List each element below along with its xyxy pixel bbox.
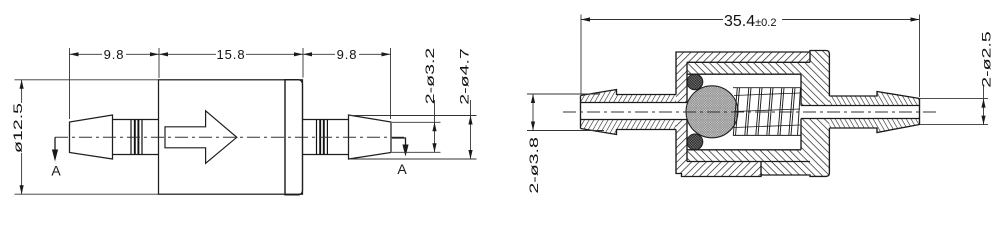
ball (poppet) bbox=[686, 86, 738, 138]
spring coils bbox=[733, 88, 800, 136]
hatched: housing top sleeve bbox=[687, 62, 810, 74]
section cut line A (left) bbox=[52, 137, 58, 161]
right tube outline bbox=[829, 92, 919, 133]
spring bbox=[733, 88, 801, 136]
right barb cone bbox=[349, 115, 392, 159]
spring top envelope bbox=[733, 87, 801, 89]
cap outline bbox=[676, 52, 810, 177]
cap skin right end bbox=[809, 52, 811, 62]
dimension 2-phi3.8 bbox=[527, 94, 604, 131]
left tube outline bbox=[581, 90, 677, 135]
hatched: left cap left tube upper wall bbox=[581, 90, 677, 103]
right barb stem bbox=[303, 120, 349, 155]
svg-text:15.8: 15.8 bbox=[217, 47, 246, 62]
valve body bbox=[159, 80, 303, 194]
dimension 2-phi4.7 bbox=[350, 100, 477, 159]
svg-text:ø12.5: ø12.5 bbox=[12, 103, 25, 153]
section outlines right view bbox=[581, 51, 920, 177]
sleeve inner edges bbox=[687, 74, 801, 150]
svg-text:2-ø2.5: 2-ø2.5 bbox=[980, 31, 993, 88]
left barb ring grooves bbox=[131, 120, 142, 155]
hatched: housing bottom sleeve bbox=[687, 150, 810, 162]
dimension 9.8 / 15.8 / 9.8 horizontal chain bbox=[70, 48, 391, 119]
seat face bbox=[800, 74, 802, 150]
o-ring upper cross-section bbox=[687, 74, 703, 90]
svg-text:2-ø3.8: 2-ø3.8 bbox=[527, 137, 540, 194]
left barb stem bbox=[113, 120, 159, 155]
right barb ring grooves bbox=[317, 120, 328, 155]
left barb cone bbox=[70, 115, 113, 159]
right bore bbox=[801, 106, 920, 119]
hatched: left cap left tube lower wall bbox=[581, 120, 677, 135]
hatched: housing bottom flange bbox=[761, 162, 810, 176]
dimension 35.4 +-0.2 bbox=[581, 15, 920, 98]
section cut line A (right) bbox=[392, 138, 409, 157]
svg-text:2-ø3.2: 2-ø3.2 bbox=[424, 48, 437, 105]
dimension 2-phi2.5 bbox=[920, 86, 989, 125]
spring back coils bbox=[734, 93, 800, 128]
hatched: cap bottom skin bbox=[687, 162, 761, 177]
flow arrow bbox=[165, 111, 237, 164]
centerline left view bbox=[55, 136, 406, 138]
hatched: cap left column upper bbox=[676, 52, 687, 103]
centerline right view bbox=[563, 111, 937, 113]
hatched: housing block + right tube lower bbox=[801, 119, 829, 177]
end flange bbox=[285, 80, 303, 195]
svg-text:2-ø4.7: 2-ø4.7 bbox=[458, 48, 471, 105]
left tube bore bbox=[581, 103, 688, 120]
hatched: cap top skin bbox=[687, 52, 810, 62]
spring bottom envelope bbox=[733, 134, 801, 136]
flange left edge bbox=[284, 80, 286, 194]
hatched: cap left column lower bbox=[676, 120, 687, 177]
dimension 2-phi3.2 bbox=[392, 100, 441, 152]
svg-text:9.8: 9.8 bbox=[104, 47, 125, 62]
svg-text:A: A bbox=[51, 163, 61, 179]
svg-text:A: A bbox=[397, 161, 407, 177]
o-ring lower cross-section bbox=[687, 134, 703, 150]
hatched: housing block + right tube upper bbox=[801, 51, 829, 106]
cap skin inner edges bbox=[687, 62, 810, 161]
svg-text:9.8: 9.8 bbox=[337, 47, 358, 62]
cap inner face bbox=[686, 62, 688, 161]
dimension phi 12.5 vertical bbox=[15, 80, 159, 194]
